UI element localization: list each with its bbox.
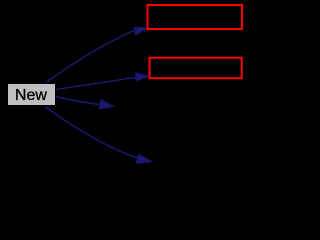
- wire edge4 New->node4: [45, 107, 137, 158]
- arrowhead edge3: [99, 99, 114, 109]
- node New (current, gray): [8, 84, 56, 106]
- wire edge2 New->node2: [56, 77, 136, 89]
- arrowhead edge2: [135, 72, 149, 81]
- arrowhead edge4: [136, 154, 152, 164]
- node1 (red, truncated): [148, 5, 243, 29]
- node2 (red, truncated): [150, 58, 242, 78]
- wire edge3 New->node3: [56, 97, 100, 105]
- wire edge1 New->node1: [47, 31, 134, 82]
- arrowhead edge1: [134, 27, 149, 35]
- svg-text:New: New: [15, 87, 47, 104]
